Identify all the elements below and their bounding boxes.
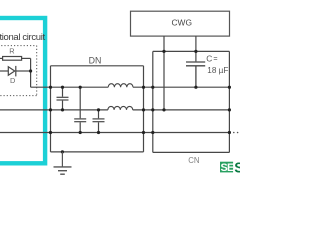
ground <box>54 152 72 174</box>
svg-text:R: R <box>9 47 14 56</box>
diode D <box>0 66 31 77</box>
svg-text:S: S <box>234 160 240 176</box>
svg-text:18 µF: 18 µF <box>207 66 228 75</box>
dashed box of additional circuit (left side off-canvas) <box>0 46 37 96</box>
wire: CWG lead 1 <box>163 36 165 110</box>
svg-text:CWG: CWG <box>172 17 192 27</box>
junction dots: line PE <box>49 131 231 134</box>
svg-text:CN: CN <box>188 156 199 165</box>
junction dots: CN top edge <box>162 50 197 53</box>
CN coupling-network outline <box>153 51 230 152</box>
junction dots: line L <box>49 86 231 89</box>
capacitor CY1 (L-PE) <box>74 87 86 132</box>
node: ground tap <box>61 150 64 153</box>
cyan highlight box (left edge off-canvas) <box>0 18 45 163</box>
capacitor CX1 (L-N) <box>57 87 69 110</box>
svg-text:C: C <box>206 54 212 64</box>
node: R/D junction <box>29 69 32 72</box>
wire: line N (middle) <box>0 109 229 111</box>
resistor R <box>0 57 31 61</box>
svg-text:SE: SE <box>221 162 235 174</box>
ellipsis continuation of PE line <box>233 132 235 134</box>
coupling capacitor C <box>186 62 205 87</box>
capacitor CY2 (N-PE) <box>93 110 105 133</box>
wire: CWG lead 2 <box>195 36 197 61</box>
SE watermark logo <box>220 162 233 173</box>
svg-text:tional circuit: tional circuit <box>0 32 45 43</box>
inductor on line N <box>108 106 133 110</box>
DN decoupling-network outline <box>51 66 144 152</box>
wire: R/D junction down and out of dashed box <box>31 58 51 87</box>
inductor on line L <box>108 84 133 88</box>
svg-text:=: = <box>213 54 217 63</box>
svg-text:DN: DN <box>89 55 102 65</box>
wire: line PE (lower) <box>0 132 229 134</box>
wire: line L (top) <box>51 86 230 88</box>
junction dots: line N <box>49 108 231 111</box>
svg-text:D: D <box>10 76 15 85</box>
CWG generator box <box>131 11 230 36</box>
